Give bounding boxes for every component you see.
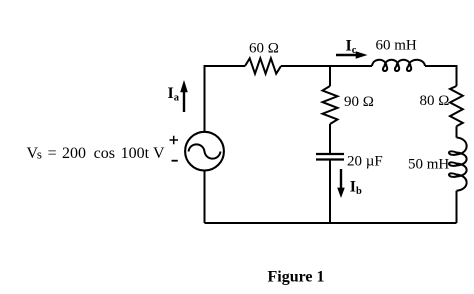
wire top-right corner [425,66,457,86]
resistor 60 ohm [245,58,281,73]
inductor 50 mH [449,138,467,191]
svg-text:60 Ω: 60 Ω [249,41,279,57]
wire top middle segment [281,65,372,67]
svg-text:Vs=200cos100tV: Vs=200cos100tV [27,145,166,162]
current arrow Ic [336,51,368,59]
voltage source Vs (AC source circle with sine) [185,132,224,171]
wire middle branch between resistor and capacitor [329,124,331,153]
inductor 60 mH [372,60,425,71]
wire top-left corner (left vertical stub + top wire to resistor) [205,66,246,132]
current arrow Ia [180,80,188,112]
wire right middle stub [456,126,458,137]
svg-text:Ic: Ic [346,38,357,57]
current arrow Ib [337,169,345,198]
bottom wire [205,222,457,224]
wire middle branch lower segment [329,161,331,224]
svg-text:60 mH: 60 mH [376,38,417,54]
capacitor 20 uF [316,154,344,160]
polarity plus sign [170,136,179,145]
svg-text:Ia: Ia [168,85,180,104]
wire left bottom segment [204,171,206,223]
svg-text:Figure 1: Figure 1 [268,269,325,286]
svg-text:50 mH: 50 mH [408,157,449,173]
svg-text:Ib: Ib [350,179,362,198]
polarity minus sign [172,160,178,162]
svg-text:90 Ω: 90 Ω [344,94,374,110]
resistor 90 ohm [323,86,338,124]
wire middle branch upper stub [329,66,331,86]
resistor 80 ohm [450,86,463,126]
svg-text:20 µF: 20 µF [347,154,383,170]
svg-text:80 Ω: 80 Ω [420,93,450,109]
wire right bottom segment [456,191,458,223]
